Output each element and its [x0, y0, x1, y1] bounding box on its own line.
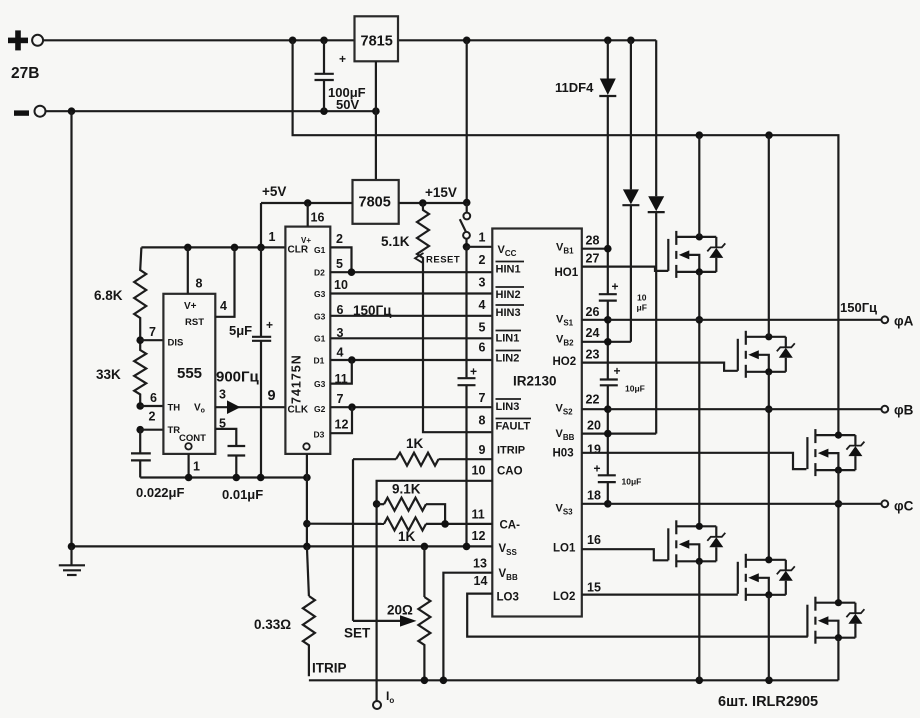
- transistor Q3 phase C high: [807, 429, 864, 476]
- svg-text:G2: G2: [314, 404, 326, 414]
- svg-text:D3: D3: [314, 430, 325, 440]
- wire HIN3 row: [330, 315, 492, 317]
- wire LIN1 row: [330, 337, 492, 339]
- svg-text:HO2: HO2: [553, 356, 577, 368]
- wire LIN2 row: [330, 356, 492, 364]
- svg-text:27B: 27B: [11, 65, 39, 82]
- svg-text:20Ω: 20Ω: [387, 603, 413, 618]
- wire VSS ground rail: [68, 543, 493, 551]
- svg-text:8: 8: [196, 277, 203, 291]
- svg-text:μF: μF: [637, 303, 647, 313]
- node junction DIS: [136, 336, 144, 344]
- svg-text:ITRIP: ITRIP: [312, 661, 347, 676]
- svg-text:+5V: +5V: [262, 184, 286, 199]
- svg-text:HIN2: HIN2: [496, 289, 521, 301]
- node junction TR: [136, 426, 144, 434]
- timer U4 555: [163, 294, 215, 454]
- regulator U2 7815: [355, 16, 399, 61]
- wire +5V net to CLR row: [141, 203, 285, 251]
- wire +27V top rail: [43, 37, 656, 45]
- wire 555 pin8: [187, 247, 189, 293]
- wire LIN3 row: [330, 403, 492, 411]
- wire VCC pin1 row: [463, 243, 493, 251]
- wire VB2 pin24: [582, 338, 631, 346]
- wire 74175 ground pin: [303, 454, 311, 547]
- wire HIN1 row: [330, 268, 492, 276]
- wire 555 pin5 CONT to C4: [215, 429, 236, 445]
- svg-text:28: 28: [586, 234, 600, 248]
- transistor Q1 phase A high: [668, 231, 725, 278]
- resistor R2 33K: [96, 340, 146, 406]
- wire HO2 gate lead: [582, 363, 738, 371]
- svg-text:+: +: [614, 364, 621, 378]
- resistor R1 6.8K: [94, 247, 146, 340]
- svg-text:CLR: CLR: [288, 245, 309, 256]
- wire +15V line: [399, 199, 471, 207]
- svg-text:1: 1: [479, 231, 486, 245]
- pin numbers IR2130 left: [472, 231, 488, 589]
- resistor R3 5.1K: [381, 203, 429, 264]
- svg-text:10: 10: [637, 293, 647, 303]
- svg-text:IR2130: IR2130: [513, 374, 557, 389]
- register U5 74175N: [285, 227, 330, 454]
- pin numbers IR2130 right: [586, 234, 601, 595]
- wire VS3 pin18 phase C node: [582, 500, 612, 508]
- svg-text:27: 27: [586, 252, 600, 266]
- wire 74175 pin2 to HIN1: [330, 247, 351, 272]
- pin label LIN3: [496, 399, 522, 413]
- svg-text:4: 4: [337, 346, 344, 360]
- svg-text:6: 6: [150, 391, 157, 405]
- wire DIS pin7: [140, 339, 163, 341]
- capacitor C2 0.022uF: [131, 430, 184, 500]
- wire VB1 pin28: [582, 245, 612, 253]
- transistor Q6 phase C low: [807, 597, 864, 644]
- svg-text:16: 16: [587, 533, 601, 547]
- svg-text:6: 6: [479, 341, 486, 355]
- svg-text:150Гц: 150Гц: [840, 300, 877, 315]
- svg-text:CONT: CONT: [179, 433, 206, 444]
- svg-text:74175N: 74175N: [290, 354, 304, 404]
- wire 74175 pin11 to LIN2: [330, 360, 352, 384]
- pin label HIN1: [496, 262, 525, 276]
- svg-text:5.1K: 5.1K: [381, 234, 410, 249]
- svg-text:23: 23: [586, 348, 600, 362]
- svg-text:LIN3: LIN3: [496, 401, 520, 413]
- svg-text:10μF: 10μF: [622, 477, 642, 487]
- wire phase C line: [608, 503, 882, 505]
- node RESET label: [415, 253, 460, 266]
- svg-text:20: 20: [587, 419, 601, 433]
- svg-text:6.8K: 6.8K: [94, 288, 123, 303]
- svg-text:7815: 7815: [361, 34, 393, 50]
- capacitor C4 0.01uF: [222, 446, 263, 502]
- diode D3 bootstrap 3: [648, 40, 665, 433]
- transistor Q2 phase B high: [738, 331, 795, 378]
- wire 7815 gnd pin: [375, 61, 377, 180]
- wire 74175 pin12 to LIN3: [330, 407, 352, 433]
- resistor R7 0.33R sense: [254, 546, 315, 676]
- wire TR pin2: [140, 429, 163, 431]
- svg-text:G3: G3: [314, 312, 326, 322]
- wire VB3 pin20: [582, 430, 656, 438]
- driver U1 IR2130: [492, 229, 582, 617]
- svg-text:D1: D1: [314, 356, 325, 366]
- wire 555 pin1 ground: [188, 454, 190, 478]
- svg-text:LO2: LO2: [553, 591, 575, 603]
- wire Q5 source to sense rail: [768, 595, 770, 681]
- wire HO1 gate lead: [582, 267, 669, 271]
- svg-text:+: +: [612, 280, 619, 294]
- wire FAULT net: [423, 264, 492, 432]
- svg-text:DIS: DIS: [168, 338, 184, 349]
- wire VCC vertical to VSS: [465, 247, 467, 378]
- svg-text:RST: RST: [185, 317, 204, 328]
- svg-text:7: 7: [479, 391, 486, 405]
- switch S1 RESET: [460, 203, 470, 247]
- svg-text:18: 18: [587, 489, 601, 503]
- wire minus rail: [46, 107, 380, 115]
- svg-text:5μF: 5μF: [229, 323, 252, 338]
- svg-text:33K: 33K: [96, 367, 121, 382]
- svg-text:LO3: LO3: [497, 592, 519, 604]
- svg-text:26: 26: [586, 305, 600, 319]
- node junction TH: [136, 402, 144, 410]
- svg-text:2: 2: [479, 253, 486, 267]
- pin label HIN2: [496, 287, 525, 301]
- wire Q1 source to phase A and Q4 drain: [696, 272, 704, 526]
- svg-text:12: 12: [472, 529, 486, 543]
- capacitor C1 100uF 50V: [315, 40, 366, 112]
- wire Q2 drain to bus: [768, 135, 770, 337]
- svg-text:1K: 1K: [406, 436, 424, 451]
- svg-text:12: 12: [335, 418, 349, 432]
- svg-text:φB: φB: [894, 403, 914, 418]
- svg-text:13: 13: [473, 557, 487, 571]
- svg-text:LIN1: LIN1: [496, 333, 520, 345]
- wire bootstrap column x608: [607, 249, 609, 504]
- svg-text:CA-: CA-: [500, 520, 521, 532]
- svg-text:HO1: HO1: [555, 267, 579, 279]
- svg-text:φA: φA: [894, 314, 914, 329]
- svg-text:2: 2: [336, 232, 343, 246]
- svg-text:RESET: RESET: [426, 255, 460, 266]
- svg-text:555: 555: [177, 365, 202, 382]
- svg-text:TH: TH: [168, 403, 181, 414]
- svg-text:LO1: LO1: [553, 543, 576, 555]
- svg-text:24: 24: [586, 326, 600, 340]
- wire LO2 gate lead: [582, 593, 738, 595]
- wire phase B line: [608, 408, 882, 410]
- svg-text:FAULT: FAULT: [496, 421, 531, 433]
- svg-text:HIN3: HIN3: [496, 307, 521, 319]
- svg-text:CLK: CLK: [288, 405, 309, 416]
- wire TH pin6: [140, 405, 163, 407]
- svg-text:14: 14: [474, 574, 488, 588]
- svg-text:1: 1: [269, 230, 276, 244]
- wire SET net vertical: [352, 459, 354, 621]
- transistor Q5 phase B low: [738, 554, 795, 601]
- node phase A terminal: [840, 300, 914, 329]
- svg-text:6шт. IRLR2905: 6шт. IRLR2905: [718, 694, 818, 710]
- svg-text:5: 5: [336, 257, 343, 271]
- resistor R5 9.1K: [373, 482, 445, 524]
- wire HO3 gate lead: [582, 453, 807, 469]
- svg-text:ITRIP: ITRIP: [497, 445, 525, 457]
- wire Q4 source to sense rail: [698, 561, 700, 680]
- svg-text:HIN1: HIN1: [496, 264, 521, 276]
- capacitor C6 bootstrap 10uF: [599, 280, 647, 313]
- svg-text:φC: φC: [894, 499, 914, 514]
- svg-text:SET: SET: [344, 626, 371, 641]
- svg-text:V+: V+: [184, 301, 197, 312]
- wire ground left vertical: [70, 111, 72, 546]
- svg-text:15: 15: [587, 581, 601, 595]
- svg-text:7805: 7805: [359, 195, 391, 211]
- svg-text:0.022μF: 0.022μF: [136, 485, 184, 500]
- svg-text:5: 5: [479, 321, 486, 335]
- wire 7815 output to +15V node: [466, 40, 468, 203]
- svg-text:3: 3: [479, 276, 486, 290]
- wire local ground rail y477: [140, 474, 311, 482]
- diode D1 11DF4: [555, 40, 616, 248]
- wire Q2 source to phase B and Q5 drain: [765, 372, 773, 560]
- wire 555 output pin3 with arrow: [215, 400, 285, 414]
- svg-text:+: +: [266, 318, 273, 332]
- svg-text:22: 22: [586, 393, 600, 407]
- svg-text:9: 9: [268, 388, 276, 404]
- svg-text:G1: G1: [314, 245, 326, 255]
- pin label LIN2: [496, 351, 522, 365]
- svg-text:1: 1: [193, 460, 200, 474]
- svg-text:10: 10: [334, 278, 348, 292]
- potentiometer R8 20R: [387, 546, 430, 680]
- node +27V input terminal: [8, 30, 43, 50]
- svg-text:10μF: 10μF: [625, 384, 645, 394]
- wire ITRIP bottom rail: [309, 661, 839, 685]
- capacitor C5 VCC bypass: [458, 365, 478, 547]
- wire LO1 gate lead: [582, 549, 669, 560]
- pin label LIN1: [496, 331, 522, 345]
- wire Q1 drain to bus: [698, 135, 700, 237]
- wire Q3 source to phase C and Q6 drain: [835, 470, 843, 603]
- svg-text:D2: D2: [314, 268, 325, 278]
- svg-text:+: +: [594, 462, 601, 476]
- svg-text:CAO: CAO: [497, 466, 523, 478]
- svg-text:+: +: [339, 52, 346, 66]
- svg-text:+15V: +15V: [425, 185, 457, 200]
- svg-text:7: 7: [337, 392, 344, 406]
- svg-text:G1: G1: [314, 334, 326, 344]
- svg-text:900Гц: 900Гц: [216, 369, 260, 386]
- svg-text:V+: V+: [301, 236, 311, 245]
- node phase B terminal: [881, 403, 913, 418]
- svg-text:1K: 1K: [398, 529, 416, 544]
- wire Q6 source to sense rail: [837, 638, 839, 681]
- svg-text:19: 19: [587, 443, 601, 457]
- svg-text:H03: H03: [553, 448, 574, 460]
- svg-text:0.33Ω: 0.33Ω: [254, 617, 291, 632]
- wire LO3 pin14 route: [467, 594, 808, 637]
- svg-text:9.1K: 9.1K: [392, 482, 421, 497]
- capacitor C3 5uF: [229, 247, 273, 477]
- svg-text:G3: G3: [314, 379, 326, 389]
- svg-text:8: 8: [479, 414, 486, 428]
- svg-text:2: 2: [149, 410, 156, 424]
- svg-text:+: +: [470, 365, 477, 379]
- svg-text:0.01μF: 0.01μF: [222, 487, 263, 502]
- svg-text:9: 9: [479, 443, 486, 457]
- node -27V input terminal: [14, 106, 46, 117]
- wire 74175 pin16: [307, 203, 309, 227]
- pin label FAULT: [496, 419, 532, 433]
- transistor Q4 phase A low: [668, 520, 725, 567]
- wire VS1 pin26 phase A node: [582, 316, 612, 324]
- svg-text:3: 3: [219, 388, 226, 402]
- capacitor C7 bootstrap 10uF: [600, 364, 645, 394]
- wire +27V bus y135: [293, 40, 839, 435]
- svg-text:16: 16: [311, 211, 325, 225]
- wire CAO row: [377, 481, 493, 705]
- node phase C terminal: [881, 499, 913, 514]
- wire VS2 pin22 phase B node: [582, 405, 612, 413]
- ground symbol: [59, 546, 85, 575]
- svg-text:11DF4: 11DF4: [555, 80, 594, 95]
- svg-text:11: 11: [472, 508, 485, 522]
- resistor R4 1K ITRIP: [353, 436, 492, 466]
- node Io terminal: [373, 689, 394, 709]
- svg-text:G3: G3: [314, 289, 326, 299]
- svg-text:4: 4: [479, 298, 486, 312]
- wire SET horizontal with arrow: [344, 615, 417, 640]
- wire HIN2 row: [330, 292, 492, 294]
- pin label HIN3: [496, 305, 525, 319]
- wire phase A line: [608, 319, 882, 321]
- svg-text:LIN2: LIN2: [496, 353, 520, 365]
- wire +5V line: [261, 199, 353, 207]
- svg-text:4: 4: [220, 299, 227, 313]
- capacitor C8 bootstrap 10uF: [594, 462, 642, 487]
- svg-text:10: 10: [472, 464, 486, 478]
- resistor R6 1K CA-: [307, 517, 492, 544]
- svg-text:7: 7: [149, 325, 156, 339]
- svg-text:50V: 50V: [336, 97, 359, 112]
- diode D2 bootstrap 2: [622, 40, 639, 342]
- wire 555 pin4 to +5V: [215, 247, 234, 316]
- wire VBB pin13: [443, 573, 492, 681]
- regulator U3 7805: [353, 180, 399, 224]
